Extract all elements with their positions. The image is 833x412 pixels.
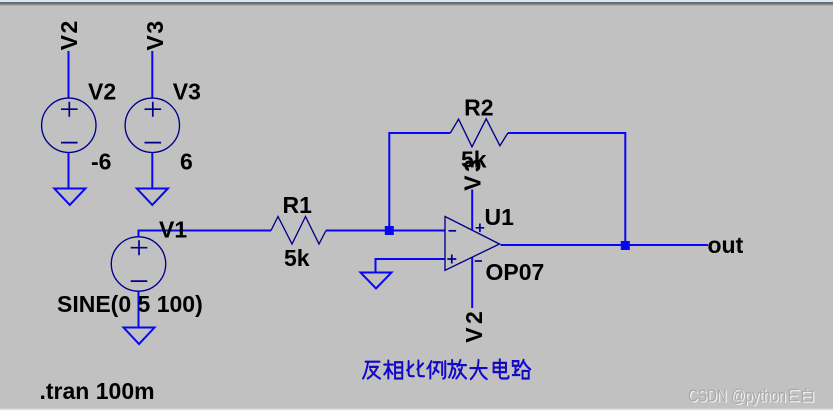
- svg-text:R2: R2: [464, 95, 493, 121]
- ground G4 (op-amp + input): [361, 273, 392, 289]
- svg-text:V2: V2: [88, 79, 116, 105]
- bottom statusbar edge: [0, 409, 833, 411]
- svg-text:OP07: OP07: [486, 259, 545, 285]
- wire V3 to ground: [151, 153, 153, 189]
- svg-text:out: out: [708, 232, 744, 258]
- svg-text:V2: V2: [56, 19, 82, 50]
- svg-text:V3: V3: [142, 19, 168, 50]
- wire V+ power pin: [471, 190, 473, 231]
- V3 minus mark: [145, 142, 162, 144]
- ground G3 (V1): [124, 328, 155, 345]
- char 路: [513, 360, 531, 379]
- resistor R1 body: [271, 217, 326, 245]
- svg-text:6: 6: [180, 148, 193, 174]
- char 例: [427, 361, 445, 378]
- char 放: [448, 360, 466, 379]
- ground G1 (V2): [54, 189, 85, 205]
- char 比: [407, 361, 424, 377]
- char 电: [494, 359, 509, 378]
- op-amp non-inverting input plus: [447, 255, 456, 264]
- svg-text:SINE(0 5 100): SINE(0 5 100): [57, 291, 203, 317]
- voltage source V1 circle: [111, 237, 165, 291]
- top toolbar edge: [0, 0, 833, 2]
- svg-text:V2: V2: [461, 308, 487, 343]
- op-amp inverting input minus: [449, 230, 457, 232]
- V2 plus mark: [61, 102, 78, 117]
- resistor R2 body: [450, 119, 508, 147]
- wire net V3 top: [151, 51, 153, 98]
- svg-text:-6: -6: [91, 148, 111, 174]
- V2 minus mark: [61, 142, 78, 144]
- V3 plus mark: [145, 102, 162, 117]
- title text 反相比例放大电路 (drawn strokes): [363, 359, 530, 379]
- node junction at R1/op-amp/feedback: [385, 226, 394, 235]
- char 大: [470, 360, 486, 379]
- op-amp U1 triangle: [445, 217, 500, 271]
- wire op-amp output to out: [501, 244, 709, 246]
- svg-text:R1: R1: [283, 192, 313, 218]
- V1 minus mark: [131, 280, 148, 282]
- wire V1 to R1: [139, 231, 272, 238]
- svg-text:.tran 100m: .tran 100m: [40, 378, 155, 404]
- voltage source V3 circle: [125, 98, 179, 152]
- wire R1 to op-amp inverting input: [326, 230, 446, 232]
- ground G2 (V3): [137, 189, 168, 205]
- char 反: [363, 362, 380, 379]
- op-amp V+ power plus mark: [476, 224, 485, 233]
- V1 plus mark: [131, 240, 148, 255]
- svg-text:V1: V1: [159, 217, 187, 243]
- svg-text:V3: V3: [173, 79, 201, 105]
- voltage source V2 circle: [42, 98, 96, 152]
- svg-text:5k: 5k: [284, 245, 310, 271]
- wire non-inverting input to ground: [376, 259, 446, 273]
- op-amp V- power minus mark: [475, 260, 482, 262]
- char 相: [384, 361, 402, 379]
- wire V1 to ground: [138, 292, 140, 328]
- wire net V2 top: [68, 51, 70, 98]
- watermark CSDN @python巨白: [688, 387, 814, 407]
- wire R2 to output node: [508, 133, 625, 246]
- node junction at output/feedback: [621, 241, 630, 250]
- wire V2 to ground: [68, 153, 70, 189]
- svg-text:@python: @python: [731, 387, 786, 406]
- svg-text:CSDN: CSDN: [688, 387, 727, 406]
- wire V- power pin: [471, 258, 473, 309]
- wire feedback left vertical to R2: [389, 133, 450, 231]
- svg-text:5k: 5k: [461, 147, 487, 173]
- svg-text:U1: U1: [485, 204, 515, 230]
